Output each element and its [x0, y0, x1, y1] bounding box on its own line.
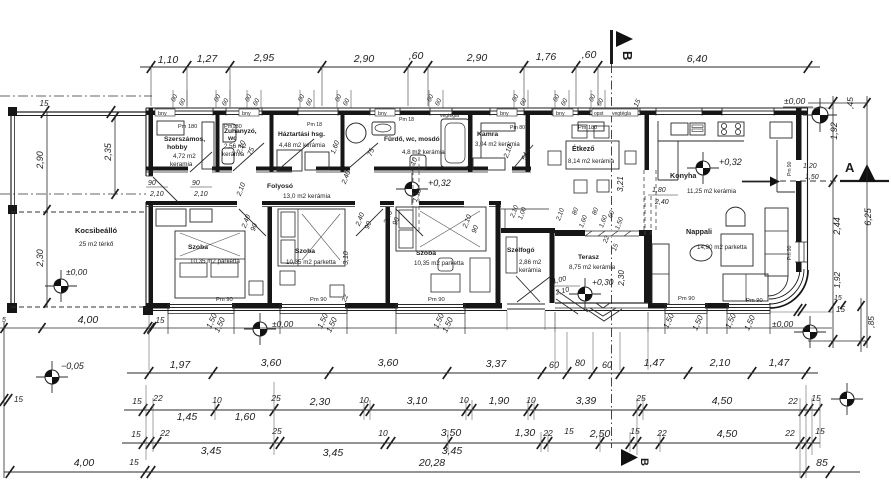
ground dimension line [0, 327, 832, 329]
door gap left wall corridor [146, 175, 153, 177]
benchmark ground +-0,00 bottom center [244, 328, 276, 330]
svg-text:15: 15 [564, 426, 574, 436]
furniture coffee table Nappali [721, 234, 753, 266]
bottom wall window lines [168, 304, 234, 306]
svg-text:1,27: 1,27 [197, 53, 219, 65]
guide verticals dimension area [145, 385, 147, 460]
svg-text:−0,05: −0,05 [61, 361, 85, 371]
svg-text:15: 15 [40, 99, 49, 108]
corridor top wall [146, 167, 531, 171]
curved wall corner Nappali [770, 270, 808, 308]
dimension chain row4 overall [4, 471, 860, 473]
svg-text:2,10: 2,10 [709, 357, 731, 369]
svg-text:,60: ,60 [582, 49, 597, 61]
outer wall left upper [145, 108, 147, 176]
carport post bottom-left [7, 303, 17, 313]
door swing Szoba3 [396, 209, 423, 236]
svg-text:Háztartási hsg.: Háztartási hsg. [278, 131, 325, 138]
window right wall Nappali [798, 242, 800, 262]
svg-text:1,47: 1,47 [644, 357, 666, 369]
svg-text:Pm 90: Pm 90 [310, 297, 327, 303]
lintel label bny 3 [375, 109, 395, 116]
svg-text:bny: bny [556, 111, 565, 117]
svg-text:3,45: 3,45 [442, 445, 463, 457]
furniture nightstand Szoba1 [249, 281, 263, 295]
svg-text:10: 10 [459, 395, 469, 405]
svg-text:3,39: 3,39 [576, 395, 597, 407]
svg-text:+0,32: +0,32 [428, 178, 451, 188]
svg-text:6,40: 6,40 [687, 53, 708, 65]
svg-text:2,30: 2,30 [35, 249, 45, 268]
svg-text:opst: opst [594, 111, 604, 117]
svg-text:Pm 180: Pm 180 [178, 124, 197, 130]
svg-text:25 m2 térkő: 25 m2 térkő [79, 241, 114, 248]
svg-text:15: 15 [630, 426, 640, 436]
svg-text:1,97: 1,97 [170, 359, 192, 371]
svg-text:Pm 90: Pm 90 [787, 161, 793, 176]
svg-text:11,25 m2 kerámia: 11,25 m2 kerámia [687, 188, 737, 195]
svg-text:±0,00: ±0,00 [772, 319, 793, 329]
furniture sofa Nappali left [652, 244, 669, 304]
carport left edge [10, 112, 12, 310]
furniture cabinet Szoba1 top [156, 209, 186, 226]
svg-text:2,10: 2,10 [193, 191, 208, 198]
svg-text:4,48 m2 kerámia: 4,48 m2 kerámia [279, 142, 326, 149]
benchmark right lower [831, 398, 863, 400]
svg-text:vegtégla: vegtégla [612, 111, 631, 117]
svg-text:±0,00: ±0,00 [784, 96, 805, 106]
svg-text:4,72 m2: 4,72 m2 [173, 153, 196, 160]
door swing Szerszamos [190, 152, 212, 172]
svg-text:1,90: 1,90 [489, 395, 510, 407]
outer wall bottom segments [146, 310, 770, 312]
svg-text:20,28: 20,28 [418, 457, 445, 469]
lintel label bny 4 [497, 109, 517, 116]
svg-text:60: 60 [602, 360, 612, 370]
dimension 2,90 carport left vertical [46, 112, 48, 307]
outer wall left lower [145, 202, 147, 312]
svg-text:4,50: 4,50 [712, 395, 733, 407]
furniture washer Haztartasi [277, 150, 302, 171]
svg-text:B: B [638, 458, 650, 466]
svg-text:10: 10 [378, 428, 388, 438]
Szelfogo bottom entrance [507, 302, 545, 311]
furniture basin circle Furdo [346, 123, 366, 143]
wall Szelfogo-Terasz [550, 228, 555, 303]
svg-text:2,40: 2,40 [654, 199, 669, 206]
svg-text:90: 90 [192, 180, 200, 187]
svg-text:2,95: 2,95 [253, 52, 275, 64]
dimension chain row3 [122, 442, 820, 444]
furniture table Etkezo [566, 141, 619, 169]
svg-text:2,30: 2,30 [617, 270, 626, 287]
furniture wardrobe Szoba3 right [470, 258, 490, 292]
section marker B bottom [621, 449, 638, 466]
svg-text:4,50: 4,50 [717, 428, 738, 440]
svg-text:22: 22 [656, 428, 667, 438]
carport roof top edge [11, 111, 146, 113]
furniture cabinet Szelfogo [506, 237, 517, 273]
furniture sofa corner arc [768, 276, 788, 296]
svg-text:1,92: 1,92 [832, 271, 842, 288]
svg-text:2,30: 2,30 [309, 396, 331, 408]
svg-text:15: 15 [811, 393, 821, 403]
Terasz steps [586, 309, 622, 321]
furniture desk Szoba2 [280, 271, 295, 285]
door swing Szoba2 [356, 209, 383, 236]
carport post mid-left [8, 205, 17, 214]
svg-text:B: B [620, 51, 635, 60]
svg-text:vegtégla: vegtégla [440, 113, 459, 119]
svg-text:+0,30: +0,30 [592, 277, 614, 287]
svg-text:bny: bny [242, 111, 251, 117]
furniture shelf Kamra [481, 123, 515, 131]
svg-text:2,86 m2: 2,86 m2 [519, 259, 542, 266]
left edge vertical line [3, 322, 5, 478]
svg-text:2,90: 2,90 [353, 53, 375, 65]
right dim line inner [832, 96, 834, 348]
svg-text:keramia: keramia [170, 161, 193, 168]
carport post bottom-right [143, 306, 153, 315]
dim 15 carport top-left [41, 106, 49, 118]
furniture desk Szoba3 [431, 274, 460, 292]
svg-text:25: 25 [270, 393, 281, 403]
dim 4,00 carport bottom [39, 323, 46, 333]
svg-text:Folyosó: Folyosó [267, 183, 293, 190]
benchmark Konyha +0,32 [687, 167, 719, 169]
svg-text:hobby: hobby [167, 144, 188, 151]
svg-text:3,21: 3,21 [616, 176, 625, 192]
furniture side table Nappali [690, 245, 712, 261]
door swing Szoba1 [239, 209, 266, 236]
svg-text:15: 15 [834, 295, 842, 302]
svg-text:10,35 m2 parketta: 10,35 m2 parketta [414, 260, 464, 267]
svg-text:+0,32: +0,32 [719, 157, 742, 167]
wall Haztartasi-Furdo [341, 115, 345, 172]
svg-text:bny: bny [500, 111, 509, 117]
svg-text:4,00: 4,00 [78, 314, 99, 326]
benchmark Terasz +0,30 [569, 293, 601, 295]
svg-text:1,76: 1,76 [536, 51, 557, 63]
svg-text:3,45: 3,45 [323, 447, 344, 459]
outer wall right [807, 108, 809, 270]
benchmark corridor +0,32 [396, 188, 428, 190]
svg-text:8,75 m2 kerámia: 8,75 m2 kerámia [569, 264, 616, 271]
svg-text:1,47: 1,47 [769, 357, 791, 369]
svg-text:1,20: 1,20 [803, 163, 817, 170]
svg-text:15: 15 [156, 316, 165, 325]
dashed opening Etkezo-Konyha [643, 170, 645, 232]
lintel label bny 5 [553, 109, 573, 116]
guide verticals terasz and rows [554, 332, 556, 370]
door swing Kamra [512, 145, 533, 170]
svg-text:Pm 18: Pm 18 [399, 117, 414, 123]
svg-text:10: 10 [212, 395, 222, 405]
svg-text:,85: ,85 [866, 316, 876, 328]
property dash-dot line top-left [0, 95, 152, 97]
furniture shower Zuhanyzo [223, 124, 236, 142]
svg-text:60: 60 [549, 360, 559, 370]
wall Kamra-Etkezo [526, 115, 531, 172]
svg-text:3,10: 3,10 [407, 395, 428, 407]
furniture stove [718, 122, 744, 136]
svg-text:3,37: 3,37 [486, 358, 508, 370]
svg-text:Fürdő, wc, mosdó: Fürdő, wc, mosdó [384, 136, 440, 143]
svg-text:3,60: 3,60 [378, 357, 399, 369]
dim 15 left wall bottom [144, 322, 152, 334]
svg-text:3,10: 3,10 [343, 251, 350, 265]
svg-text:Nappali: Nappali [686, 227, 712, 236]
svg-text:Pm 90: Pm 90 [428, 297, 445, 303]
right dim line outer [866, 96, 868, 348]
svg-text:25: 25 [271, 426, 282, 436]
svg-text:Kocsibeálló: Kocsibeálló [75, 226, 118, 235]
carport post top-left [8, 107, 17, 116]
section marker A [858, 164, 876, 182]
svg-text:Pm 80: Pm 80 [510, 125, 525, 131]
svg-text:Pm 18: Pm 18 [307, 122, 322, 128]
Terasz door opening dashed [585, 230, 639, 238]
svg-text:15: 15 [131, 429, 141, 439]
furniture dryer Haztartasi [305, 152, 329, 170]
furniture armchair Nappali top [726, 207, 745, 226]
svg-text:2,90: 2,90 [35, 151, 45, 170]
furniture kitchen counter [658, 140, 744, 142]
svg-text:2,50: 2,50 [589, 428, 611, 440]
Szelfogo top wall [501, 228, 555, 233]
Terasz step hatch [556, 290, 588, 312]
svg-text:4,00: 4,00 [74, 457, 95, 469]
door swing Szelfogo entrance [517, 276, 551, 302]
svg-text:15: 15 [836, 305, 845, 314]
svg-text:Pm 90: Pm 90 [678, 296, 695, 302]
furniture cabinet Szoba2 [330, 285, 344, 297]
top wall window lines [158, 110, 213, 116]
dimension chain row2 [124, 409, 820, 411]
svg-text:1,60: 1,60 [235, 411, 256, 423]
furniture fridge [770, 122, 792, 138]
door swing Haztartasi [278, 139, 314, 170]
svg-text:bny: bny [158, 111, 167, 117]
svg-text:1,50: 1,50 [805, 174, 819, 181]
svg-text:1,30: 1,30 [515, 427, 536, 439]
svg-text:15: 15 [132, 396, 142, 406]
svg-text:22: 22 [159, 428, 170, 438]
door swing Furdo [349, 143, 378, 168]
furniture chair Szoba3 [438, 258, 453, 271]
carport dashed bottom edge [11, 211, 146, 213]
svg-text:Étkező: Étkező [572, 144, 595, 153]
furniture sideboard Etkezo [578, 122, 604, 131]
dimension chain top overall [140, 66, 820, 68]
svg-text:6,25: 6,25 [863, 207, 873, 226]
dashed door Nappali-Terasz [644, 196, 646, 236]
benchmark +-0,00 top right [803, 114, 837, 116]
benchmark -0,05 left [36, 376, 68, 378]
svg-text:1,80: 1,80 [652, 187, 666, 194]
door gaps corridor top wall [188, 165, 212, 173]
svg-text:A: A [845, 160, 855, 175]
svg-text:22: 22 [542, 428, 553, 438]
wall stub Etkezo-Konyha [645, 115, 650, 170]
gardrob niche lines [501, 208, 549, 210]
svg-text:2,10: 2,10 [149, 191, 164, 198]
svg-text:3,60: 3,60 [261, 357, 282, 369]
svg-text:1,10: 1,10 [158, 54, 179, 66]
lintel label bny 1 [155, 109, 175, 116]
svg-text:±0,00: ±0,00 [66, 267, 87, 277]
furniture kitchen sink [671, 123, 688, 135]
svg-text:Szélfogó: Szélfogó [507, 247, 534, 254]
furniture bathtub Furdo [441, 119, 469, 167]
wall Furdo-Kamra [468, 115, 473, 172]
svg-text:2,35: 2,35 [103, 142, 113, 162]
door swing Zuhanyzo [233, 143, 264, 171]
benchmark +-0,00 bottom right [794, 331, 826, 333]
lintel label bny 2 [239, 109, 259, 116]
furniture chairs Etkezo [572, 125, 587, 138]
dim 15 right wall bottom [794, 304, 802, 316]
svg-text:90: 90 [148, 180, 156, 187]
svg-text:Szerszámos,: Szerszámos, [164, 136, 205, 143]
door swing corridor west exit [153, 177, 178, 202]
svg-text:±0,00: ±0,00 [272, 319, 293, 329]
svg-text:Pm180: Pm180 [224, 124, 242, 130]
corridor bottom wall [146, 201, 501, 205]
furniture cabinet Szerszamos [157, 121, 184, 135]
svg-text:85: 85 [816, 457, 828, 469]
svg-text:80: 80 [575, 358, 585, 368]
svg-text:13,0 m2 kerámia: 13,0 m2 kerámia [283, 193, 331, 200]
furniture bed Szoba3 [396, 207, 486, 251]
wall Szoba3-Szelfogo [496, 201, 501, 303]
furniture wardrobe Szerszamos [202, 122, 214, 169]
wall Szerszamos-Zuhanyzo [216, 115, 220, 172]
furniture sink Furdo [372, 122, 395, 135]
dimension 2,35 vertical [114, 117, 116, 194]
section line B-B [611, 64, 613, 448]
svg-text:15: 15 [14, 395, 23, 404]
furniture sofa Nappali bottom [723, 274, 768, 301]
svg-text:15: 15 [129, 457, 139, 467]
svg-text:8,14 m2 kerámia: 8,14 m2 kerámia [568, 158, 615, 165]
svg-text:2,90: 2,90 [466, 52, 488, 64]
window drop lines + 150 labels [167, 313, 169, 334]
svg-text:22: 22 [152, 393, 163, 403]
svg-text:,60: ,60 [409, 50, 424, 62]
svg-text:Szoba: Szoba [188, 244, 208, 251]
outer wall top [146, 107, 808, 109]
furniture wc Furdo [410, 155, 426, 169]
svg-text:3,50: 3,50 [441, 427, 462, 439]
svg-text:1,92: 1,92 [829, 122, 839, 140]
svg-text:Terasz: Terasz [578, 254, 600, 261]
section marker B top [610, 30, 613, 64]
svg-text:Kamra: Kamra [477, 131, 498, 138]
svg-text:bny: bny [378, 111, 387, 117]
dimension chain row1 [127, 372, 818, 374]
Terasz top wall [555, 230, 652, 236]
furniture sofa Nappali right [765, 208, 788, 276]
svg-text:22: 22 [787, 396, 798, 406]
Terasz bottom edge [555, 302, 648, 304]
furniture wc Zuhanyzo [222, 148, 234, 164]
lintel label opst vegtegla [592, 109, 638, 116]
furniture bed Szoba2 [278, 209, 345, 266]
svg-text:22: 22 [784, 428, 795, 438]
svg-text:10,35 m2 parketta: 10,35 m2 parketta [286, 259, 336, 266]
wall Szoba2-Szoba3 [386, 207, 391, 303]
svg-text:kerámia: kerámia [519, 267, 542, 274]
svg-text:1,45: 1,45 [177, 411, 198, 423]
door gaps corridor bottom wall [237, 200, 262, 208]
svg-text:Konyha: Konyha [670, 171, 697, 180]
svg-text:3,45: 3,45 [201, 445, 222, 457]
wall Zuhanyzo-Haztartasi [270, 115, 274, 172]
furniture bed Szoba1 [175, 231, 245, 298]
wall Szoba1-Szoba2 [268, 207, 273, 303]
svg-text:2,44: 2,44 [832, 217, 842, 236]
section line A-A [742, 181, 770, 183]
wall Terasz-Nappali [644, 236, 652, 303]
benchmark carport +-0,00 [45, 285, 77, 287]
carport dash-dot centerline [0, 193, 146, 195]
